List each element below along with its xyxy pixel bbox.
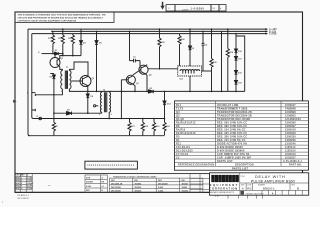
svg-text:A: A <box>242 187 244 191</box>
svg-text:2N2894: 2N2894 <box>135 182 143 185</box>
svg-text:DEC: DEC <box>111 180 116 182</box>
svg-text:B360: B360 <box>16 188 20 190</box>
svg-text:4 7JAN: 4 7JAN <box>27 176 34 179</box>
svg-text:DEC3639B: DEC3639B <box>111 191 121 193</box>
svg-text:DEC: DEC <box>158 180 163 182</box>
svg-text:C GND: C GND <box>269 34 277 36</box>
svg-text:CORPORATION: CORPORATION <box>209 187 238 191</box>
svg-text:NUMBER: NUMBER <box>182 10 189 12</box>
svg-text:CIRCUITS ARE PROPRIETARY IN NA: CIRCUITS ARE PROPRIETARY IN NATURE AND S… <box>18 16 104 19</box>
svg-text:A-PL-B360-0-1: A-PL-B360-0-1 <box>283 160 302 163</box>
svg-text:d: d <box>212 178 214 182</box>
svg-text:1N3606: 1N3606 <box>182 191 189 193</box>
svg-text:D-662: D-662 <box>158 187 163 189</box>
svg-text:DEC3009B: DEC3009B <box>111 187 121 189</box>
svg-text:PULSE AMPLIFIER B360: PULSE AMPLIFIER B360 <box>251 179 295 183</box>
svg-text:B: B <box>297 187 299 191</box>
svg-text:THIS SCHEMATIC IS FURNISHED ON: THIS SCHEMATIC IS FURNISHED ONLY FOR TES… <box>18 13 107 16</box>
svg-text:C2: C2 <box>176 156 180 159</box>
svg-text:B360: B360 <box>16 180 20 182</box>
svg-text:SCHEM: SCHEM <box>86 182 93 184</box>
svg-text:2N3639: 2N3639 <box>182 183 189 185</box>
svg-text:2N3639: 2N3639 <box>135 191 142 193</box>
svg-text:B 360: B 360 <box>86 186 91 188</box>
svg-text:2: 2 <box>99 114 100 116</box>
svg-text:RS B360 0-1: RS B360 0-1 <box>18 195 30 197</box>
svg-text:2: 2 <box>61 91 62 93</box>
svg-text:a: a <box>230 178 232 182</box>
svg-text:TRANSISTOR & DIODE CONVERSION: TRANSISTOR & DIODE CONVERSION CHART <box>113 175 157 178</box>
svg-text:DEC6534B: DEC6534B <box>158 182 168 185</box>
svg-text:6 4MAR: 6 4MAR <box>27 182 34 185</box>
svg-text:DEC FORM NO: DEC FORM NO <box>18 198 30 200</box>
svg-text:5 2FEB: 5 2FEB <box>27 180 34 182</box>
svg-text:D1: D1 <box>55 50 57 52</box>
svg-text:DELAY WITH: DELAY WITH <box>255 174 285 179</box>
svg-text:5: 5 <box>71 91 72 93</box>
svg-text:1N645: 1N645 <box>182 186 188 189</box>
svg-text:J: J <box>27 109 28 111</box>
svg-text:B360-0-1: B360-0-1 <box>263 186 275 190</box>
svg-text:0-1: 0-1 <box>102 186 105 188</box>
svg-text:COPYRIGHT 1963 BY DIGITAL EQUI: COPYRIGHT 1963 BY DIGITAL EQUIPMENT CORP… <box>18 19 77 22</box>
svg-text:3: 3 <box>111 91 112 93</box>
svg-text:REFERENCE DESIGNATION: REFERENCE DESIGNATION <box>178 163 214 166</box>
svg-text:DEC: DEC <box>86 190 91 192</box>
svg-text:TITLE: TITLE <box>241 176 245 178</box>
svg-text:F 12: F 12 <box>215 196 219 198</box>
svg-text:1: 1 <box>61 69 62 71</box>
svg-text:g: g <box>219 178 221 182</box>
svg-text:B360: B360 <box>16 186 20 188</box>
svg-text:1-0-B360: 1-0-B360 <box>191 7 205 10</box>
svg-text:PARTS LIST: PARTS LIST <box>232 168 248 171</box>
svg-text:6: 6 <box>71 69 72 71</box>
svg-text:MAYNARD, MASSACHUSETTS: MAYNARD, MASSACHUSETTS <box>210 191 235 194</box>
svg-text:PART NO.: PART NO. <box>289 163 302 166</box>
svg-text:2N3009: 2N3009 <box>135 187 142 189</box>
svg-text:PARTS LIST: PARTS LIST <box>217 160 233 163</box>
svg-text:DEC2894-3B: DEC2894-3B <box>111 182 123 185</box>
svg-text:1: 1 <box>100 91 101 93</box>
svg-text:B360: B360 <box>16 177 20 179</box>
svg-text:t: t <box>227 178 228 182</box>
svg-text:SIZE: SIZE <box>86 177 91 179</box>
svg-text:F: F <box>21 186 22 188</box>
svg-text:4: 4 <box>111 113 112 116</box>
svg-text:8 1APR: 8 1APR <box>27 185 34 188</box>
svg-text:RS: RS <box>247 187 251 191</box>
svg-text:DESCRIPTION: DESCRIPTION <box>235 163 254 166</box>
svg-text:9 1MAY: 9 1MAY <box>27 187 34 190</box>
svg-text:B360: B360 <box>16 183 20 185</box>
svg-text:PRINTED CIRCUIT REV.: PRINTED CIRCUIT REV. <box>246 193 265 195</box>
